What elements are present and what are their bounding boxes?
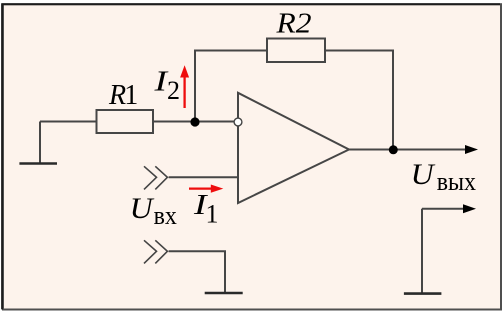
svg-text:R2: R2: [275, 9, 311, 40]
svg-text:2: 2: [167, 76, 180, 105]
svg-text:U: U: [130, 192, 155, 225]
svg-text:U: U: [411, 158, 436, 191]
svg-text:вых: вых: [437, 168, 477, 196]
svg-text:1: 1: [124, 80, 138, 111]
svg-text:вх: вх: [154, 202, 178, 230]
svg-text:1: 1: [206, 199, 219, 228]
